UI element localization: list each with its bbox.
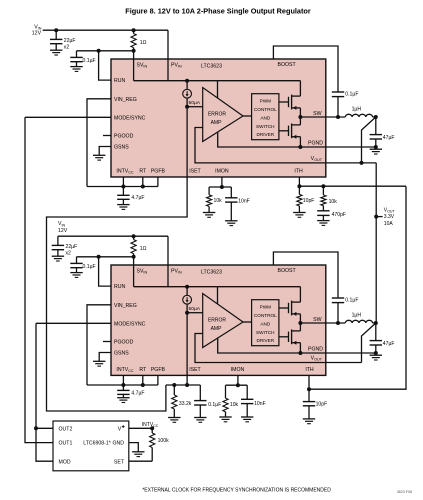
svg-text:RUN: RUN (114, 284, 125, 290)
svg-text:RUN: RUN (114, 78, 125, 84)
svg-text:LTC6908-1*: LTC6908-1* (83, 440, 111, 446)
svg-text:PGFB: PGFB (151, 367, 166, 373)
svg-text:ERROR: ERROR (208, 318, 226, 324)
svg-text:AMP: AMP (211, 120, 223, 126)
svg-text:47µF: 47µF (383, 341, 395, 347)
svg-text:SWITCH: SWITCH (256, 330, 275, 335)
svg-text:ITH: ITH (305, 367, 314, 373)
svg-text:OUT1: OUT1 (59, 441, 73, 447)
svg-text:IMON: IMON (231, 367, 245, 373)
svg-text:CONTROL: CONTROL (254, 107, 277, 112)
svg-text:ISET: ISET (189, 367, 201, 373)
svg-text:DRIVER: DRIVER (256, 132, 274, 137)
svg-text:1µH: 1µH (352, 107, 362, 113)
svg-text:47µF: 47µF (383, 135, 395, 141)
svg-text:GSNS: GSNS (114, 145, 129, 151)
svg-text:GSNS: GSNS (114, 351, 129, 357)
svg-text:1Ω: 1Ω (140, 40, 147, 46)
svg-text:MODE/SYNC: MODE/SYNC (114, 115, 146, 121)
svg-text:10k: 10k (214, 198, 223, 204)
svg-text:0.1µF: 0.1µF (83, 58, 96, 64)
svg-text:10nF: 10nF (254, 401, 266, 407)
svg-text:V: V (118, 426, 122, 432)
svg-text:GND: GND (112, 441, 124, 447)
svg-text:0.1µF: 0.1µF (345, 92, 358, 98)
svg-text:12V: 12V (32, 31, 42, 37)
svg-text:AND: AND (260, 115, 271, 120)
svg-text:PGND: PGND (308, 347, 323, 353)
svg-text:470pF: 470pF (332, 212, 346, 218)
svg-text:PGFB: PGFB (151, 169, 166, 175)
svg-text:AMP: AMP (211, 326, 223, 332)
svg-text:CONTROL: CONTROL (254, 313, 277, 318)
svg-text:PGOOD: PGOOD (114, 340, 134, 346)
svg-text:50µA: 50µA (189, 100, 201, 106)
svg-text:DRIVER: DRIVER (256, 338, 274, 343)
svg-text:0.1µF: 0.1µF (345, 298, 358, 304)
svg-text:PGOOD: PGOOD (114, 134, 134, 140)
svg-text:SWITCH: SWITCH (256, 124, 275, 129)
svg-text:LTC3623: LTC3623 (201, 270, 222, 276)
svg-text:4.7µF: 4.7µF (131, 195, 144, 201)
svg-text:12V: 12V (58, 228, 68, 234)
svg-text:BOOST: BOOST (278, 268, 297, 274)
svg-text:1Ω: 1Ω (140, 246, 147, 252)
svg-text:PWM: PWM (260, 98, 272, 103)
svg-text:MOD: MOD (59, 459, 71, 465)
svg-text:VIN_REG: VIN_REG (114, 97, 137, 103)
svg-text:VIN_REG: VIN_REG (114, 303, 137, 309)
svg-text:1µH: 1µH (352, 313, 362, 319)
svg-text:10nF: 10nF (238, 198, 250, 204)
svg-text:4.7µF: 4.7µF (131, 391, 144, 397)
svg-text:0.1µF: 0.1µF (83, 264, 96, 270)
svg-text:OUT2: OUT2 (59, 426, 73, 432)
svg-text:50µA: 50µA (189, 306, 201, 312)
svg-text:22µF: 22µF (66, 244, 78, 250)
svg-text:10k: 10k (329, 199, 338, 205)
svg-text:x2: x2 (64, 44, 70, 50)
svg-text:10k: 10k (230, 402, 239, 408)
svg-text:100k: 100k (158, 438, 169, 444)
svg-text:33.2k: 33.2k (179, 401, 192, 407)
svg-text:MODE/SYNC: MODE/SYNC (114, 321, 146, 327)
svg-text:PWM: PWM (260, 304, 272, 309)
svg-text:SW: SW (313, 317, 321, 323)
svg-text:10pF: 10pF (303, 198, 315, 204)
svg-text:22µF: 22µF (64, 38, 76, 44)
svg-text:x2: x2 (66, 250, 72, 256)
svg-text:3.3V: 3.3V (384, 214, 395, 220)
svg-text:3623 F08: 3623 F08 (397, 490, 412, 494)
svg-text:*EXTERNAL CLOCK FOR FREQUENCY: *EXTERNAL CLOCK FOR FREQUENCY SYNCHRONIZ… (142, 487, 331, 493)
svg-text:ITH: ITH (294, 169, 303, 175)
svg-text:ERROR: ERROR (208, 112, 226, 118)
svg-text:IMON: IMON (215, 169, 229, 175)
svg-text:10A: 10A (384, 221, 394, 227)
svg-text:10pF: 10pF (316, 402, 328, 408)
svg-text:ISET: ISET (189, 169, 201, 175)
svg-text:AND: AND (260, 321, 271, 326)
svg-text:RT: RT (139, 169, 147, 175)
svg-text:Figure 8. 12V to 10A 2-Phase S: Figure 8. 12V to 10A 2-Phase Single Outp… (125, 6, 311, 15)
svg-text:BOOST: BOOST (278, 62, 297, 68)
svg-text:0.1µF: 0.1µF (208, 402, 221, 408)
svg-text:PGND: PGND (308, 141, 323, 147)
svg-text:LTC3623: LTC3623 (201, 64, 222, 70)
svg-text:SW: SW (313, 111, 321, 117)
svg-text:RT: RT (139, 367, 147, 373)
svg-text:SET: SET (114, 459, 125, 465)
